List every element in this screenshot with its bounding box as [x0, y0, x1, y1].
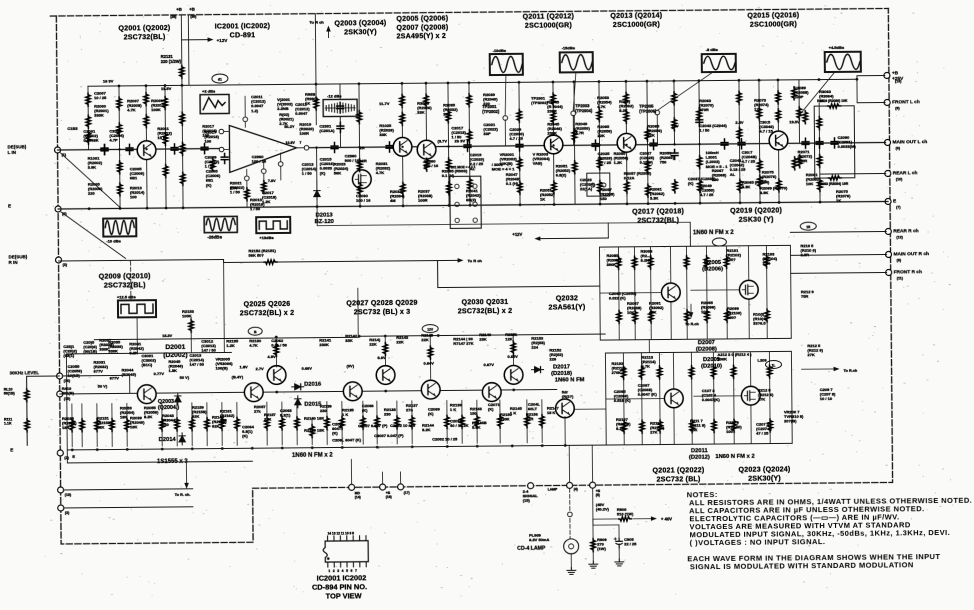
svg-text:(18): (18): [65, 493, 72, 497]
wire: [187, 15, 190, 85]
junction dots lower rails: [275, 336, 278, 339]
wire collector feed: [275, 337, 277, 367]
transistor Q2013: [617, 133, 636, 152]
resistor: [117, 97, 122, 110]
wire: [673, 81, 676, 144]
wire component string: [266, 402, 268, 445]
capacitor: [802, 138, 809, 148]
svg-text:BL2Y: BL2Y: [284, 124, 295, 129]
resistor collector: [383, 343, 388, 356]
resistor: [118, 183, 123, 196]
switch block S2001 (MODE): [450, 176, 481, 228]
capacitor: [126, 144, 133, 154]
circled node 1L: [765, 360, 781, 368]
wire Q2010 gate feed: [694, 395, 743, 397]
transistor Q2011: [544, 135, 563, 154]
svg-text:1N60 N FM x 2: 1N60 N FM x 2: [292, 453, 333, 459]
wire lamp feeds down: [568, 445, 570, 482]
wire: [599, 82, 600, 204]
leader from waveform to TP2005: [657, 72, 713, 111]
wire REAR R ch feed: [790, 230, 886, 233]
IC pin 9 stub: [359, 536, 361, 541]
wire component string: [296, 402, 298, 445]
wire: [777, 80, 779, 132]
IC pin 14 stub: [327, 536, 329, 541]
resistor op-amp pin4 string: [262, 181, 267, 194]
connector terminal (13) +B: [884, 72, 890, 78]
svg-text:11.7V: 11.7V: [379, 101, 390, 106]
wire: [316, 148, 319, 207]
resistor: [400, 112, 405, 125]
wire: [625, 81, 627, 134]
resistor: [776, 91, 781, 104]
wire: [425, 83, 428, 141]
resistor: [265, 417, 270, 430]
wire box4 to block: [136, 317, 138, 353]
svg-text:19.5V: 19.5V: [789, 119, 800, 124]
resistor: [220, 418, 225, 431]
transistor Q2029: [421, 380, 440, 399]
wire: [359, 84, 360, 206]
svg-text:D2001(D2002): D2001(D2002): [163, 344, 188, 359]
svg-text:(12): (12): [896, 235, 903, 239]
svg-text:E: E: [10, 447, 13, 452]
svg-text:10.8V: 10.8V: [285, 141, 295, 145]
svg-text:+12.5 dBs: +12.5 dBs: [117, 294, 137, 299]
connector terminal (15): [57, 391, 63, 397]
resistor: [424, 158, 429, 171]
resistor: [731, 365, 736, 378]
capacitor: [738, 139, 745, 149]
svg-text:d1: d1: [218, 78, 222, 82]
svg-text:MAIN OUT R ch: MAIN OUT R ch: [894, 251, 930, 257]
svg-text:LAMP: LAMP: [548, 487, 558, 491]
IC pin 8 stub: [365, 536, 367, 541]
connector terminal (18): [58, 487, 64, 493]
resistor: [684, 256, 689, 269]
resistor: [639, 366, 644, 379]
resistor: [175, 418, 180, 431]
capacitor C2001 series: [101, 145, 108, 155]
wire component string: [499, 400, 501, 443]
resistor: [552, 181, 557, 194]
resistor: [621, 366, 626, 379]
svg-text:(30): (30): [190, 15, 196, 19]
svg-text:4.9V: 4.9V: [267, 354, 276, 359]
wire FRONT L ch feed: [857, 101, 885, 103]
capacitor: [386, 142, 393, 152]
svg-text:1N60 N FM: 1N60 N FM: [555, 377, 585, 383]
wire: [26, 376, 28, 388]
svg-text:8.0V: 8.0V: [377, 355, 386, 360]
IC pin 11 stub: [346, 536, 348, 541]
connector terminal (2) E: [55, 206, 61, 212]
arrow To R.ch (detector out): [690, 304, 692, 314]
resistor: [181, 172, 186, 185]
wire (17) feed: [399, 472, 401, 484]
svg-text:Q2021 (Q2022)2SC732 (BL): Q2021 (Q2022)2SC732 (BL): [652, 466, 704, 483]
waveform box -12 dBs (burst): [323, 99, 357, 116]
wire component string: [396, 401, 398, 444]
wire stub (18): [64, 489, 193, 490]
capacitor: [101, 145, 108, 155]
wire Q2029 collector: [429, 336, 431, 381]
svg-text:7.8V: 7.8V: [268, 179, 276, 183]
wire: [552, 82, 554, 136]
resistor: [80, 419, 85, 432]
resistor: [190, 418, 195, 431]
wire: [633, 247, 636, 340]
wire Q2009 out to lower block: [190, 317, 192, 353]
resistor R900 510: [618, 517, 631, 522]
resistor collector: [274, 344, 279, 357]
svg-text:C2007 0.047 (P): C2007 0.047 (P): [358, 423, 388, 428]
wire dash-dot feed (Q2009): [130, 261, 132, 300]
junction dots top rail: [118, 85, 121, 88]
transistor Q2001: [137, 141, 156, 160]
svg-text:CD-894 PIN NO.: CD-894 PIN NO.: [312, 582, 367, 591]
resistor: [551, 111, 556, 124]
svg-text:1N60 N FM x 2: 1N60 N FM x 2: [715, 454, 754, 460]
resistor: [361, 416, 366, 429]
wire component string: [161, 403, 163, 446]
capacitor: [721, 139, 728, 149]
resistor: [280, 417, 285, 430]
wire Q2032 to lamp driver: [564, 416, 566, 445]
wire: [448, 83, 449, 205]
capacitor C2090 (C2091) 0.0033(M): [831, 138, 838, 148]
resistor: [625, 180, 630, 193]
wire: [705, 246, 708, 339]
resistor: [340, 416, 345, 429]
resistor: [205, 418, 210, 431]
svg-text:(11): (11): [897, 276, 904, 280]
resistor: [310, 425, 315, 438]
svg-text:-8 dBs: -8 dBs: [706, 47, 719, 52]
wire mid link: [317, 222, 690, 225]
svg-text:+ 40V: + 40V: [661, 516, 672, 521]
wire diagonal from input (2): [61, 211, 125, 259]
resistor: [698, 180, 703, 193]
resistor: [597, 157, 602, 170]
resistor: [424, 94, 429, 107]
connector terminal (15) 2-4: [528, 483, 534, 489]
op-amp pin 2: [219, 129, 224, 134]
svg-text:Q2015 (Q2016)2SC1000(GR): Q2015 (Q2016)2SC1000(GR): [747, 11, 799, 28]
test point TP2001 (TP2002): [503, 116, 508, 121]
resistor: [86, 115, 91, 128]
svg-text:D2007(D2008): D2007(D2008): [696, 340, 717, 353]
wire REAR L ch feed: [820, 172, 886, 175]
wire Q2009 base feed: [606, 397, 666, 400]
wire: [640, 353, 643, 445]
svg-text:Q2011 (Q2012)2SC1000(GR): Q2011 (Q2012)2SC1000(GR): [523, 12, 575, 29]
wire Q2009 collector-emitter: [672, 352, 675, 444]
resistor: [738, 179, 743, 192]
svg-text:+12V: +12V: [217, 38, 229, 43]
svg-text:R2144 | 90R7147 27K: R2144 | 90R7147 27K: [453, 336, 473, 346]
IC pin 1 stub: [327, 562, 329, 567]
resistor: [597, 109, 602, 122]
waveform box -26dBs: [204, 216, 237, 232]
svg-text:1L: 1L: [772, 363, 776, 367]
resistor: [401, 182, 406, 195]
wire FRONT R ch feed: [791, 271, 887, 274]
svg-text:R3019 (R2080) 10K: R3019 (R2080) 10K: [817, 99, 848, 103]
resistor: [518, 181, 523, 194]
dashed enclosure border: [50, 8, 888, 16]
wire: [649, 247, 652, 340]
transistor Q2026: [267, 366, 286, 385]
IC pin 6 stub: [359, 562, 361, 567]
switch block aux: [587, 173, 610, 196]
svg-text:IC2001 IC2002: IC2001 IC2002: [317, 573, 367, 582]
resistor: [295, 417, 300, 430]
wire bottom rail: [67, 445, 606, 450]
wire (14) feed: [350, 459, 352, 484]
zener diode D2013 symbol: [314, 188, 321, 200]
svg-text:To R ch: To R ch: [309, 20, 324, 25]
wire component string: [362, 401, 364, 444]
capacitor: [337, 102, 344, 112]
resistor op-amp pin1 string: [245, 188, 250, 201]
op-amp pin 3: [219, 147, 224, 152]
wire component string: [71, 404, 73, 447]
output network R3019 (R2080) 10K: [814, 106, 855, 178]
wire collector feed: [512, 335, 514, 365]
svg-text:677V: 677V: [110, 375, 120, 380]
wire: [778, 149, 780, 202]
test point TP2003 (TP2004): [571, 111, 576, 116]
connector terminal (11) FRONT R ch: [886, 269, 892, 275]
resistor RL10: [25, 389, 30, 402]
transistor Q2025a: [137, 385, 156, 404]
wire component string: [81, 404, 83, 447]
connector terminal (2) E: [57, 450, 63, 456]
connector terminal (16) 30KHz LEVEL: [57, 373, 63, 379]
resistor left of op-amp: [210, 158, 215, 171]
wire: [339, 116, 341, 147]
svg-text:L209: L209: [757, 358, 767, 363]
resistor: [645, 128, 650, 141]
wire: [658, 353, 661, 445]
svg-text:MD(14): MD(14): [355, 491, 361, 499]
svg-text:( B01 MOE = 4 = 1: ( B01 MOE = 4 = 1: [449, 165, 476, 169]
wire: [315, 14, 316, 125]
connector terminal (8) MAIN OUT R ch: [886, 251, 892, 257]
connector terminal (14) MD: [349, 484, 355, 490]
wire component string: [476, 400, 478, 443]
svg-text:REAR R ch: REAR R ch: [893, 228, 918, 234]
resistor: [803, 111, 808, 124]
wire chain line: [60, 389, 557, 394]
resistor R2131 220 (1/2W): [180, 65, 185, 78]
resistor: [646, 184, 651, 197]
resistor: [689, 366, 694, 379]
capacitor: [671, 149, 678, 159]
resistor: [624, 110, 629, 123]
transistor Q2027: [343, 382, 362, 401]
wire component string: [281, 402, 283, 445]
transistor Q2030: [482, 383, 501, 402]
capacitor: [464, 141, 471, 151]
R-ch detector block outline (upper): [599, 245, 791, 340]
resistor: [757, 107, 762, 120]
capacitor: [696, 116, 703, 126]
resistor: [446, 110, 451, 123]
connector terminal (9) FRONT L ch: [884, 99, 890, 105]
svg-text:(B.4Y): (B.4Y): [232, 374, 244, 379]
resistor: [672, 92, 677, 105]
svg-text:2b 3V: 2b 3V: [454, 138, 465, 143]
resistor: [117, 123, 122, 136]
resistor: [95, 419, 100, 432]
capacitor C905 22/25: [618, 525, 620, 537]
svg-text:FRONT L ch: FRONT L ch: [892, 99, 920, 105]
resistor: [117, 161, 122, 174]
IC pin 4 stub: [346, 562, 348, 567]
resistor: [460, 415, 465, 428]
resistor R909 270 1W: [591, 539, 596, 552]
resistor: [767, 365, 772, 378]
svg-text:EACH WAVE FORM IN THE DIAGRA: EACH WAVE FORM IN THE DIAGRAM SHOWS WHEN…: [687, 552, 940, 571]
wire Q2007 drain-source: [747, 246, 750, 339]
IC2001/IC2002 DIP-14 package outline: [323, 541, 368, 562]
connector terminal (17): [398, 484, 404, 490]
wire: [739, 80, 740, 202]
svg-text:-12 dBs: -12 dBs: [327, 93, 342, 98]
resistor: [737, 127, 742, 140]
waveform box -10 dBs (L in): [103, 218, 136, 236]
wire mid link vertical: [316, 207, 318, 226]
resistor: [817, 117, 822, 130]
svg-text:(17): (17): [404, 491, 410, 495]
wire: [119, 86, 120, 208]
svg-text:0.67V: 0.67V: [483, 362, 494, 367]
diode D2015: [295, 396, 302, 408]
wire component string: [541, 400, 543, 443]
wire: [553, 154, 555, 205]
svg-text:+4.5dBs: +4.5dBs: [829, 45, 845, 50]
transistor Q2025b: [244, 383, 263, 402]
IC pin 2 stub: [333, 562, 335, 567]
capacitor: [816, 138, 823, 148]
svg-text:To R ch: To R ch: [468, 258, 483, 263]
svg-text:C1B3: C1B3: [67, 126, 78, 131]
resistor: [375, 416, 380, 429]
resistor: [180, 142, 185, 155]
wire bottom rail 2: [67, 461, 252, 463]
wire component string: [411, 401, 413, 444]
svg-text:50 V): 50 V): [98, 384, 108, 389]
op-amp pin 6: [243, 117, 248, 122]
leader from output waveform: [799, 72, 835, 115]
wire R-channel input stepped path: [59, 256, 600, 291]
svg-text:30KHz LEVEL: 30KHz LEVEL: [10, 370, 40, 375]
capacitor at triangle left: [221, 153, 228, 163]
wire: [690, 352, 693, 444]
transistor Q2015: [769, 131, 788, 150]
wire: [165, 86, 166, 208]
diode D2017: [532, 367, 544, 373]
svg-text:R1111.1K: R1111.1K: [4, 417, 12, 425]
svg-text:TOP VIEW: TOP VIEW: [326, 591, 362, 600]
capacitor: [516, 141, 523, 151]
svg-text:REAR L ch: REAR L ch: [893, 170, 918, 176]
resistor: [598, 181, 603, 194]
wire Q2007 gate feed: [691, 289, 741, 291]
waveform box -8 dBs (TP2005): [702, 54, 736, 72]
resistor: [624, 92, 629, 105]
wire Q2010 drain-source: [749, 352, 752, 444]
wire component string: [96, 404, 98, 447]
svg-text:R2140 18K: R2140 18K: [304, 428, 324, 433]
svg-text:0.65V: 0.65V: [507, 354, 518, 359]
resistor R2083 (R2084) 10R: [828, 176, 841, 181]
transistor Q2007: [417, 140, 436, 159]
svg-text:-10 dBs: -10 dBs: [106, 238, 121, 243]
svg-text:1R: 1R: [806, 225, 811, 229]
resistor: [672, 118, 677, 131]
resistor: [144, 115, 149, 128]
resistor R111: [25, 419, 30, 432]
resistor: [144, 93, 149, 106]
svg-text:-10dBs: -10dBs: [493, 48, 507, 53]
resistor: [697, 108, 702, 121]
resistor: [475, 415, 480, 428]
wire output network to MAIN OUT: [855, 141, 886, 143]
IC pin 3 stub: [340, 562, 342, 567]
svg-text:(16): (16): [64, 379, 71, 383]
resistor: [764, 255, 769, 268]
wire: [725, 246, 728, 339]
wire: [818, 103, 821, 202]
svg-text:C206L 604T (K): C206L 604T (K): [332, 437, 362, 442]
svg-text:CD-4 LAMP: CD-4 LAMP: [517, 546, 546, 552]
svg-text:+2 dBs: +2 dBs: [202, 89, 216, 94]
svg-text:16 3V: 16 3V: [103, 78, 114, 83]
wire: [798, 80, 801, 143]
wire: [469, 83, 470, 205]
lamp PL909 CD-4 LAMP: [564, 539, 579, 554]
wire component string: [206, 403, 208, 446]
svg-text:E: E: [8, 203, 11, 208]
waveform box +13dBs (square): [256, 217, 290, 233]
connector terminal (6) MAIN OUT L ch: [884, 139, 890, 145]
wire collector feed: [384, 336, 386, 366]
resistor: [357, 159, 362, 172]
svg-text:FRONT R ch: FRONT R ch: [894, 269, 922, 275]
resistor: [724, 255, 729, 268]
svg-text:Q2013 (Q2014)2SC1000(GR): Q2013 (Q2014)2SC1000(GR): [610, 12, 662, 29]
wire 1N60 link into R-ch block: [689, 222, 691, 246]
transistor Q2032: [556, 399, 575, 418]
wire lower-left block top rail: [66, 352, 231, 353]
wire: [626, 152, 628, 204]
wire E ground bus: [58, 201, 888, 209]
IC pin 10 stub: [352, 536, 354, 541]
wire component string: [221, 403, 223, 446]
junction dots E bus: [88, 207, 91, 210]
svg-text:Q2001 (Q2002)2SC732(BL): Q2001 (Q2002)2SC732(BL): [118, 24, 170, 41]
connector terminal (3) DE(SUB): [56, 257, 62, 263]
svg-text:C2002 10 / 25: C2002 10 / 25: [390, 423, 416, 428]
capacitor: [650, 140, 657, 150]
resistor: [517, 157, 522, 170]
resistor: [572, 161, 577, 174]
diode D2014: [179, 433, 186, 445]
resistor: [704, 256, 709, 269]
